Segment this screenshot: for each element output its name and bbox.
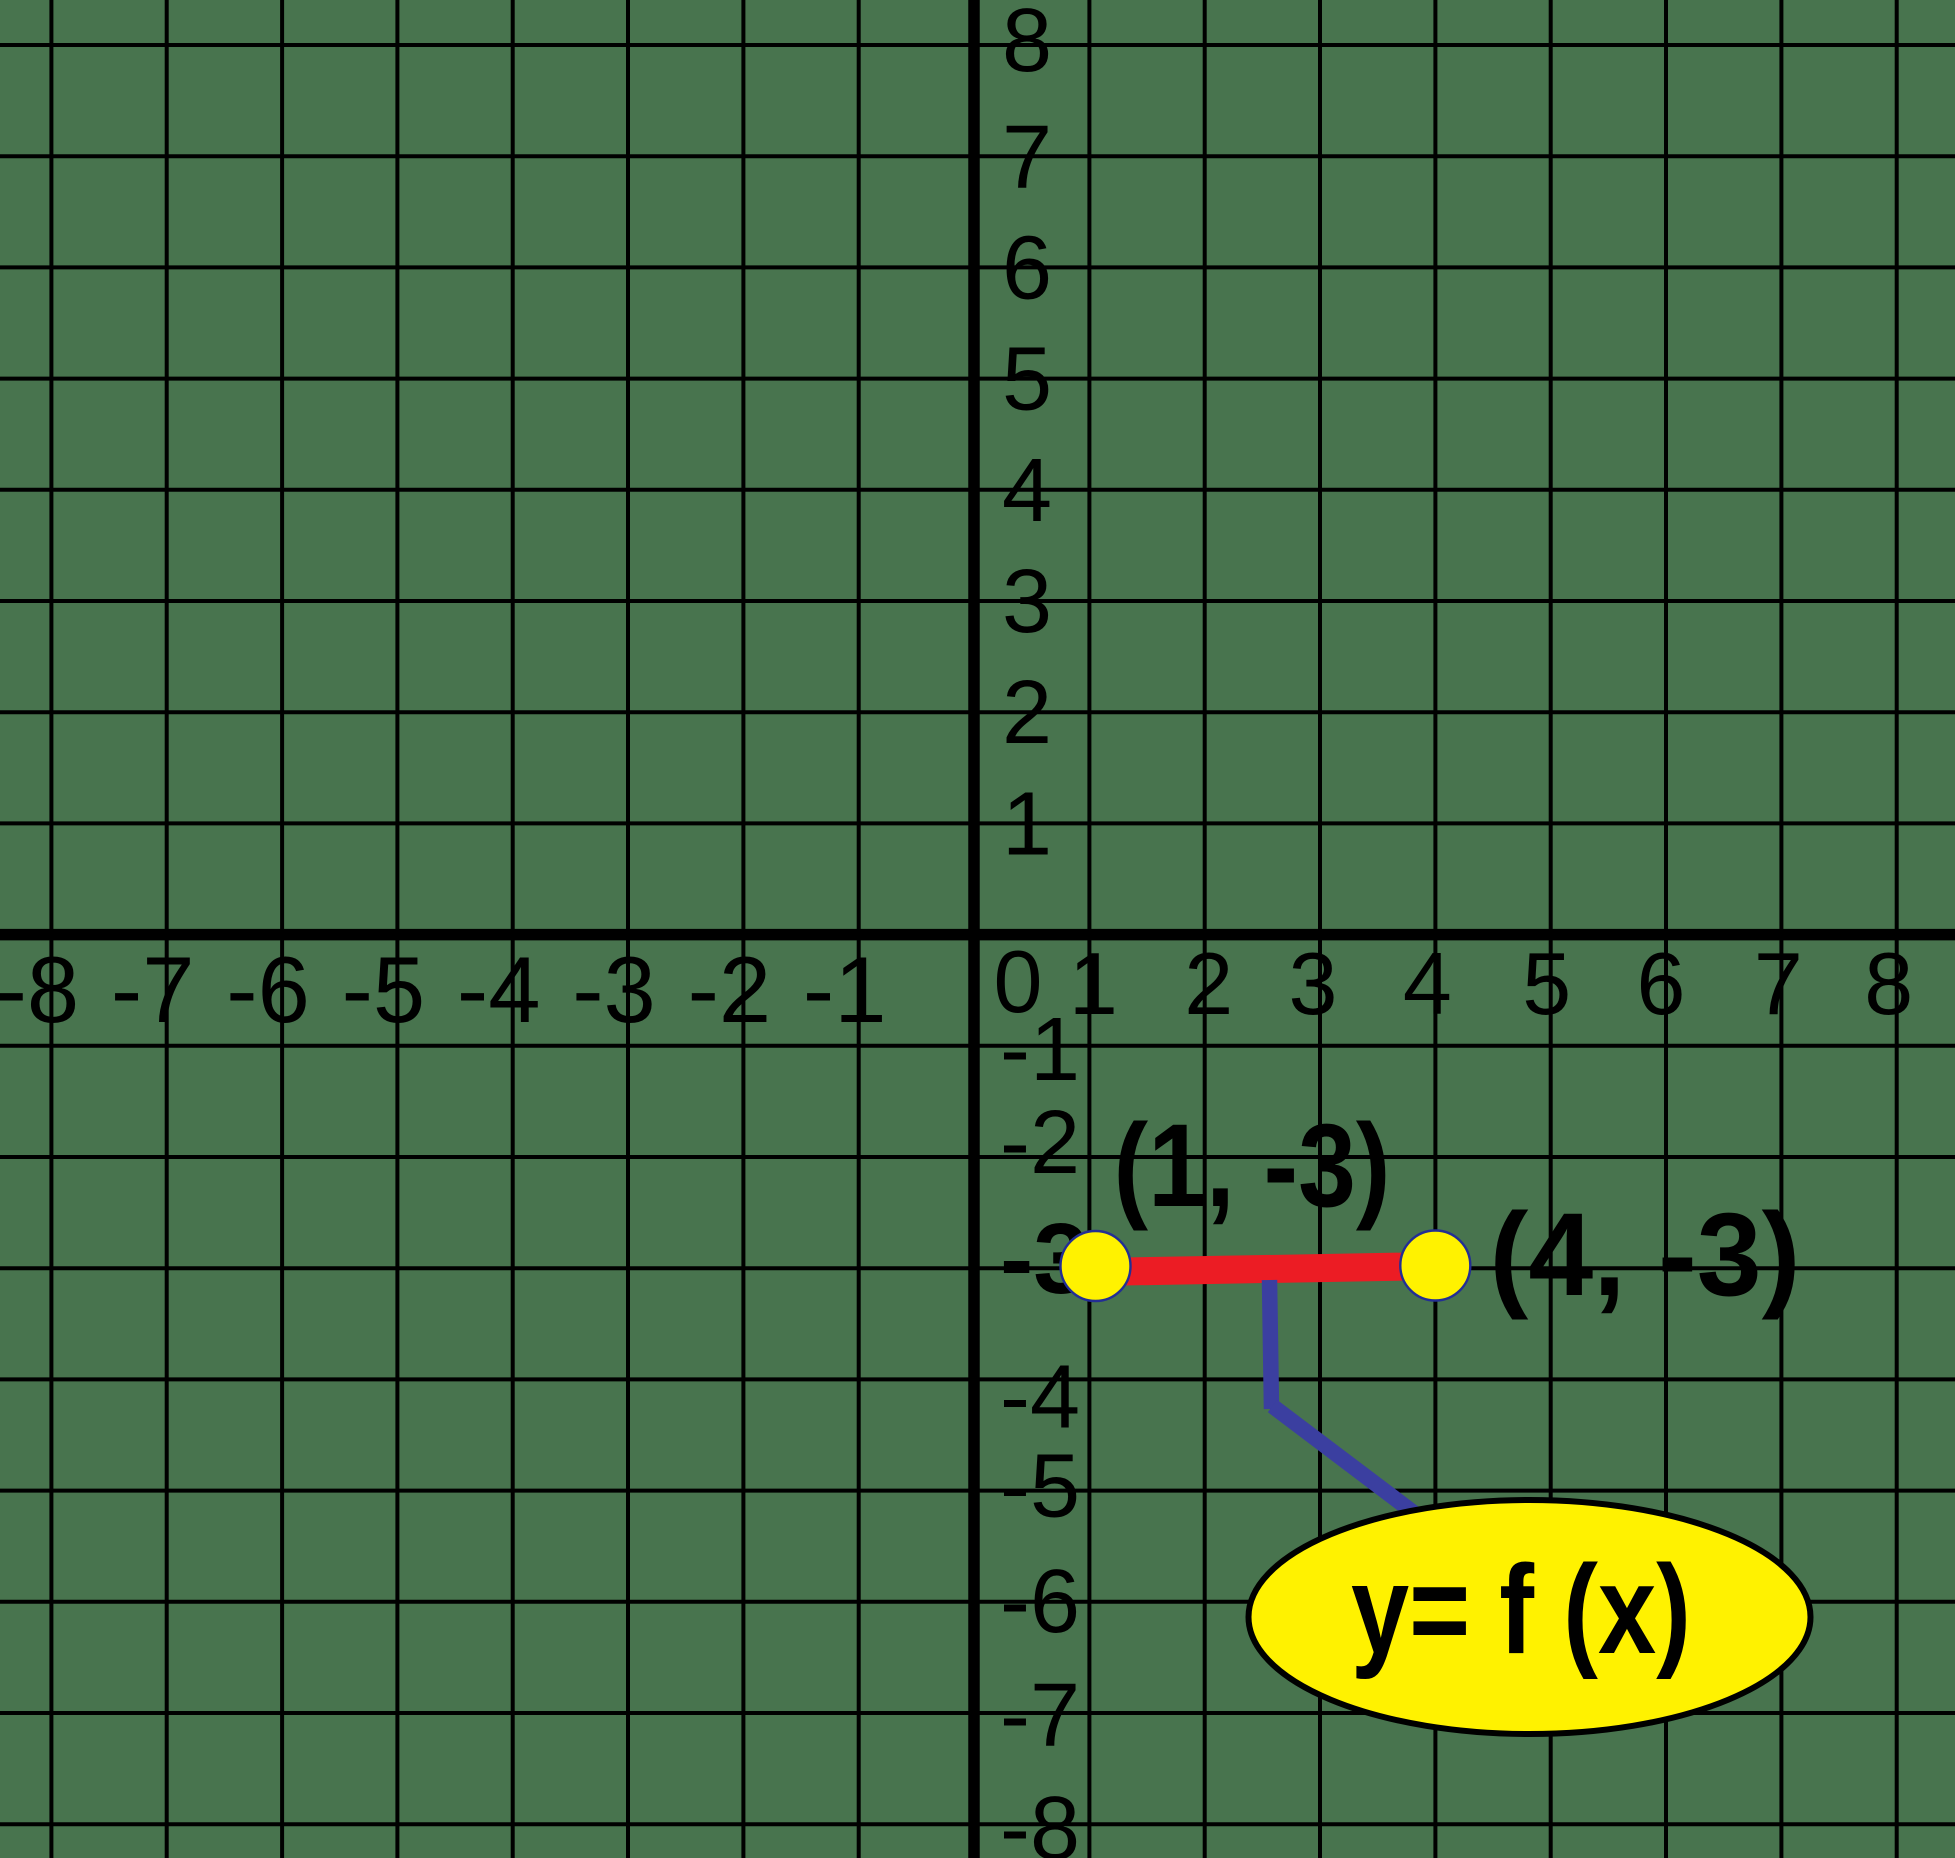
svg-text:5: 5: [1522, 934, 1571, 1033]
svg-text:-1: -1: [803, 937, 887, 1042]
svg-text:7: 7: [1754, 934, 1803, 1033]
svg-text:-6: -6: [226, 937, 310, 1042]
svg-text:6: 6: [1002, 218, 1052, 318]
svg-text:-8: -8: [0, 937, 79, 1042]
svg-text:-5: -5: [342, 937, 426, 1042]
svg-text:1: 1: [1002, 774, 1052, 874]
svg-text:-2: -2: [688, 937, 772, 1042]
svg-text:8: 8: [1002, 0, 1052, 91]
svg-text:7: 7: [1002, 108, 1052, 208]
svg-text:(4, -3): (4, -3): [1490, 1189, 1801, 1321]
svg-text:2: 2: [1184, 934, 1233, 1033]
svg-text:3: 3: [1002, 552, 1052, 652]
svg-text:-4: -4: [457, 937, 541, 1042]
svg-text:-6: -6: [1000, 1552, 1080, 1652]
svg-text:-4: -4: [1000, 1347, 1080, 1447]
svg-text:3: 3: [1289, 934, 1338, 1033]
svg-text:-7: -7: [1000, 1666, 1080, 1766]
svg-text:-7: -7: [111, 937, 195, 1042]
svg-text:6: 6: [1637, 934, 1686, 1033]
svg-text:-3: -3: [572, 937, 656, 1042]
svg-text:4: 4: [1002, 441, 1052, 541]
svg-text:8: 8: [1864, 934, 1913, 1033]
svg-text:-2: -2: [1000, 1093, 1080, 1193]
svg-text:-5: -5: [1000, 1437, 1080, 1537]
svg-text:-8: -8: [1000, 1779, 1080, 1858]
svg-text:2: 2: [1002, 663, 1052, 763]
svg-text:(1, -3): (1, -3): [1114, 1100, 1391, 1232]
svg-text:-1: -1: [1000, 1000, 1080, 1100]
svg-text:y= f (x): y= f (x): [1351, 1539, 1691, 1680]
svg-text:5: 5: [1002, 330, 1052, 430]
svg-text:4: 4: [1403, 934, 1452, 1033]
